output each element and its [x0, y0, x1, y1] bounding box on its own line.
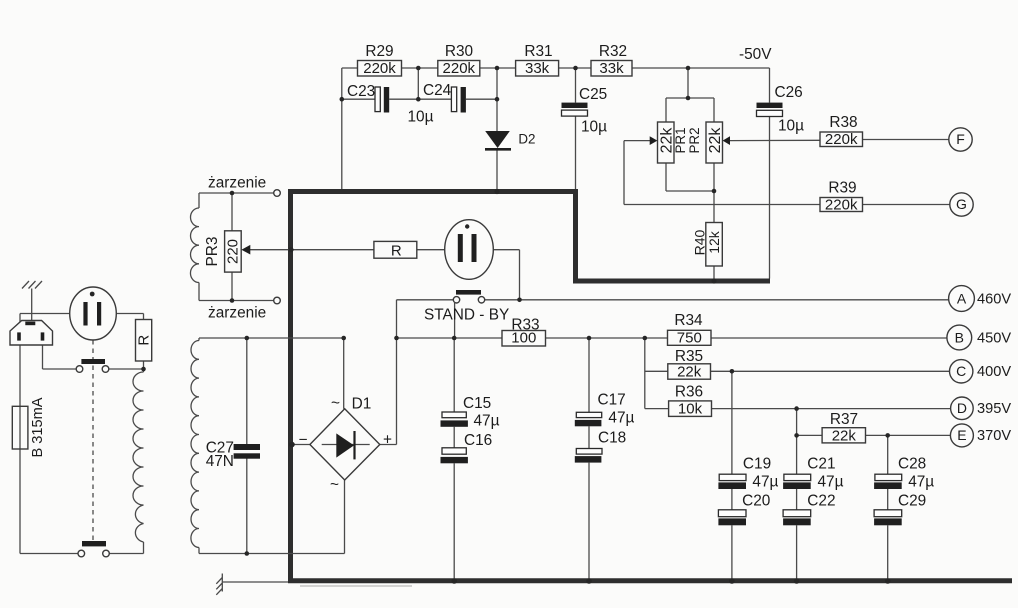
svg-text:STAND - BY: STAND - BY — [424, 307, 509, 324]
svg-text:460V: 460V — [977, 292, 1011, 308]
svg-text:R34: R34 — [674, 312, 703, 329]
svg-text:PR2: PR2 — [687, 127, 702, 153]
svg-text:PR1: PR1 — [673, 127, 688, 153]
svg-text:47µ: 47µ — [818, 474, 844, 491]
svg-text:100: 100 — [511, 330, 536, 347]
svg-text:47µ: 47µ — [908, 474, 934, 491]
svg-text:C20: C20 — [742, 493, 770, 510]
svg-text:33k: 33k — [599, 60, 624, 77]
svg-text:C: C — [956, 363, 966, 379]
svg-text:B: B — [955, 329, 964, 345]
svg-text:E: E — [957, 427, 966, 443]
svg-text:12k: 12k — [706, 230, 722, 254]
svg-text:żarzenie: żarzenie — [208, 305, 266, 322]
svg-text:750: 750 — [677, 329, 702, 346]
svg-text:A: A — [957, 290, 967, 306]
svg-text:~: ~ — [331, 395, 340, 412]
svg-text:B 315mA: B 315mA — [30, 397, 46, 457]
svg-text:C18: C18 — [598, 430, 626, 447]
svg-text:-50V: -50V — [739, 46, 772, 63]
svg-text:220k: 220k — [825, 131, 858, 148]
svg-text:D1: D1 — [352, 396, 372, 413]
svg-text:C17: C17 — [598, 392, 626, 409]
svg-text:R37: R37 — [830, 411, 858, 428]
svg-text:22k: 22k — [677, 363, 702, 380]
svg-text:47µ: 47µ — [752, 474, 778, 491]
svg-text:żarzenie: żarzenie — [208, 175, 266, 192]
svg-text:370V: 370V — [977, 428, 1011, 444]
svg-text:R31: R31 — [524, 43, 552, 60]
svg-text:C25: C25 — [579, 86, 607, 103]
svg-text:C19: C19 — [743, 456, 771, 473]
svg-text:+: + — [383, 432, 392, 449]
svg-text:G: G — [956, 196, 967, 212]
svg-text:−: − — [299, 432, 308, 449]
svg-text:F: F — [956, 131, 965, 147]
svg-text:R32: R32 — [599, 43, 627, 60]
svg-text:395V: 395V — [977, 401, 1011, 417]
svg-text:220k: 220k — [363, 60, 396, 77]
svg-text:10µ: 10µ — [778, 118, 804, 135]
svg-text:C24: C24 — [423, 82, 452, 99]
svg-text:400V: 400V — [977, 364, 1011, 380]
svg-text:C15: C15 — [463, 395, 491, 412]
svg-text:220k: 220k — [825, 197, 858, 214]
svg-text:22k: 22k — [832, 427, 857, 444]
svg-text:R30: R30 — [445, 43, 473, 60]
svg-text:C16: C16 — [464, 432, 492, 449]
svg-text:C28: C28 — [898, 456, 926, 473]
svg-text:R: R — [391, 243, 402, 260]
svg-text:47µ: 47µ — [474, 413, 500, 430]
svg-text:22k: 22k — [707, 127, 724, 154]
svg-text:C29: C29 — [898, 493, 926, 510]
svg-text:D: D — [957, 400, 967, 416]
svg-text:450V: 450V — [977, 331, 1011, 347]
svg-text:R40: R40 — [691, 229, 707, 255]
svg-text:R29: R29 — [365, 43, 393, 60]
svg-text:D2: D2 — [518, 132, 535, 147]
svg-text:10k: 10k — [678, 400, 703, 417]
svg-text:10µ: 10µ — [581, 119, 607, 136]
svg-text:PR3: PR3 — [204, 237, 221, 267]
svg-text:C26: C26 — [775, 84, 803, 101]
svg-text:R38: R38 — [829, 114, 857, 131]
svg-text:R39: R39 — [828, 180, 856, 197]
svg-text:220: 220 — [224, 239, 241, 264]
svg-text:R: R — [135, 335, 152, 346]
svg-text:33k: 33k — [525, 60, 550, 77]
svg-text:C22: C22 — [807, 493, 835, 510]
svg-text:10µ: 10µ — [408, 109, 434, 126]
svg-text:C23: C23 — [347, 83, 375, 100]
svg-text:R36: R36 — [675, 384, 703, 401]
svg-text:C21: C21 — [807, 456, 835, 473]
svg-text:220k: 220k — [443, 60, 476, 77]
svg-text:47µ: 47µ — [608, 410, 634, 427]
svg-text:~: ~ — [330, 477, 339, 494]
svg-text:47N: 47N — [206, 453, 234, 470]
